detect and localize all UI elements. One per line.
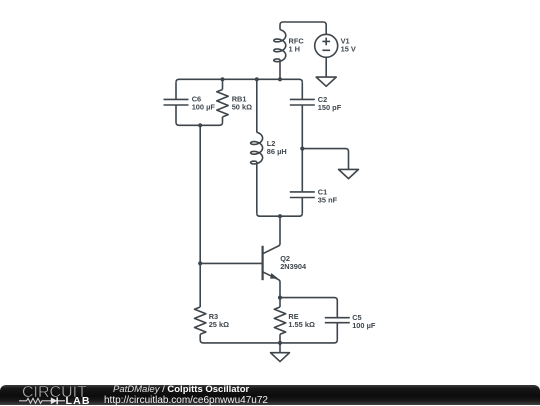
credit line — [113, 384, 249, 395]
capacitor C5 — [325, 318, 350, 340]
resistor R3 — [195, 307, 206, 340]
svg-text:2N3904: 2N3904 — [280, 262, 307, 271]
label R3 value — [209, 312, 229, 329]
label C2 value — [318, 95, 342, 112]
ground mid right — [339, 169, 359, 178]
wire collector lead — [263, 216, 280, 254]
junction dot ground node — [278, 341, 282, 345]
capacitor C1 — [290, 149, 315, 214]
wire VCC top rail — [280, 22, 326, 25]
CircuitLab logo schematic squiggle — [19, 397, 65, 404]
svg-text:86 µH: 86 µH — [267, 147, 287, 156]
wire bottom emitter rail — [200, 340, 337, 343]
junction dot base-feed top — [198, 123, 202, 127]
label Q2 value — [280, 254, 307, 271]
capacitor C2 — [290, 82, 315, 148]
footer bar — [0, 385, 540, 406]
resistor RB1 — [217, 79, 228, 122]
junction dot emitter node — [278, 296, 282, 300]
label C6 value — [192, 95, 216, 112]
wire branch to mid ground — [302, 149, 348, 170]
svg-text:25 kΩ: 25 kΩ — [209, 320, 229, 329]
capacitor C6 — [164, 82, 189, 122]
junction dot collector node — [278, 214, 282, 218]
junction dot RFC bottom — [278, 77, 282, 81]
wire upper rail — [176, 79, 302, 82]
label RE value — [288, 312, 315, 329]
resistor RE — [274, 298, 285, 343]
svg-text:50 kΩ: 50 kΩ — [232, 103, 252, 112]
ground below V1 — [316, 77, 336, 86]
label C1 value — [318, 188, 338, 205]
svg-text:100 µF: 100 µF — [352, 321, 376, 330]
svg-text:1.55 kΩ: 1.55 kΩ — [288, 320, 315, 329]
svg-text:1 H: 1 H — [289, 45, 301, 54]
inductor RFC — [274, 25, 286, 79]
ground bottom — [271, 343, 290, 362]
junction dot base node — [198, 261, 202, 265]
wire bottom rail of C6/RB1 — [176, 122, 223, 125]
wire base horizontal — [200, 262, 262, 264]
label V1 value — [341, 37, 356, 54]
junction dot L2 top — [255, 77, 259, 81]
inductor L2 — [251, 79, 263, 213]
svg-text:150 pF: 150 pF — [318, 103, 342, 112]
svg-text:35 nF: 35 nF — [318, 196, 338, 205]
transistor Q2 — [263, 246, 280, 298]
svg-text:LAB: LAB — [66, 394, 91, 405]
label RB1 value — [232, 95, 252, 112]
wire base feed vertical — [199, 125, 201, 307]
junction dot RB1 top — [220, 77, 224, 81]
junction dot C2/C1 node — [300, 147, 304, 151]
svg-text:100 µF: 100 µF — [192, 103, 216, 112]
label RFC value — [289, 37, 305, 54]
url line — [104, 395, 268, 406]
voltage source V1 — [315, 25, 338, 77]
wire emitter rail to C5 — [280, 298, 337, 318]
label L2 value — [267, 139, 287, 156]
label C5 value — [352, 313, 376, 330]
svg-text:15 V: 15 V — [341, 45, 356, 54]
wire tank bottom rail — [257, 213, 303, 216]
